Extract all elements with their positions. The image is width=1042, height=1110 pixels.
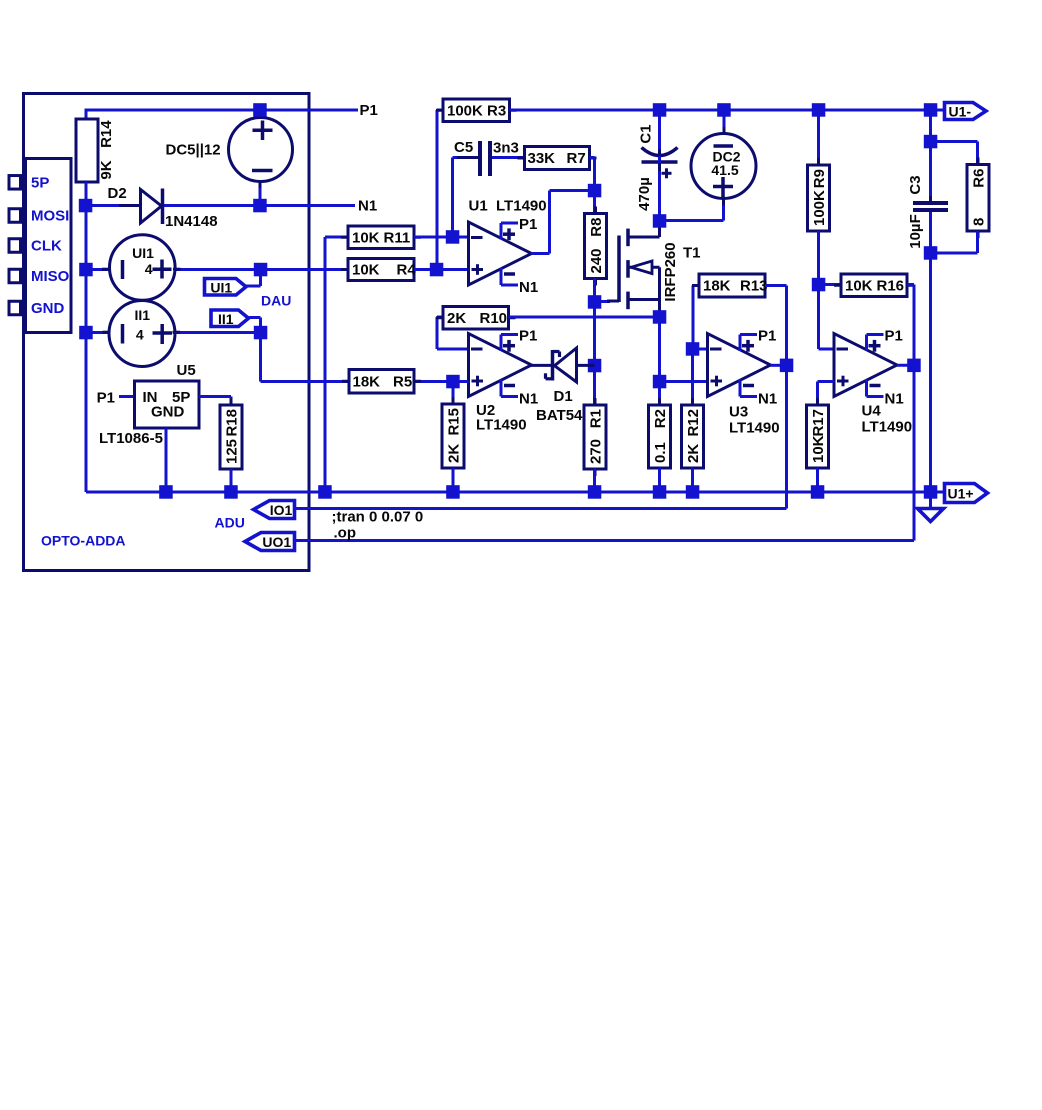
wire R3 right / top rail — [510, 109, 931, 112]
svg-text:2K: 2K — [447, 310, 466, 327]
svg-text:100K: 100K — [811, 190, 828, 226]
diode D2 — [141, 190, 162, 224]
connector box — [26, 159, 72, 333]
svg-text:R17: R17 — [810, 409, 827, 437]
resistor R16 — [834, 284, 841, 287]
svg-text:OPTO-ADDA: OPTO-ADDA — [41, 533, 126, 549]
diode D1 BAT54 — [555, 348, 577, 382]
resistor R14 — [76, 119, 98, 182]
wire R12 top — [691, 349, 694, 405]
wire P1 to U5 — [119, 395, 135, 398]
regulator U5 box — [135, 381, 200, 428]
svg-text:10K: 10K — [845, 277, 873, 294]
svg-text:R16: R16 — [877, 277, 905, 294]
wire T1 source down — [658, 317, 661, 382]
svg-text:ADU: ADU — [215, 515, 245, 531]
svg-text:R8: R8 — [588, 218, 605, 237]
DC5 minus mark — [252, 169, 273, 173]
svg-text:41.5: 41.5 — [711, 162, 738, 178]
wire R6 top — [931, 140, 978, 143]
junction R9 top rail — [812, 103, 826, 117]
op-amp U3 — [708, 334, 771, 397]
svg-text:5P: 5P — [31, 174, 49, 191]
svg-text:DAU: DAU — [261, 292, 291, 308]
UI1 plus mark — [153, 267, 172, 271]
resistor R5 — [342, 380, 349, 383]
wire U5 5P out — [199, 395, 231, 398]
svg-text:BAT54: BAT54 — [536, 407, 583, 424]
junction DC5 top — [253, 103, 267, 117]
wire DC5 bottom stub — [259, 181, 262, 206]
svg-text:LT1490: LT1490 — [476, 417, 527, 434]
junction U1+ rail — [924, 485, 938, 499]
connector pin square CLK — [9, 239, 21, 253]
wire R1 bottom — [593, 469, 596, 492]
svg-text:N1: N1 — [519, 279, 538, 296]
wire D2 anode — [86, 204, 137, 207]
wire C5 right — [492, 156, 525, 159]
wire U3- input — [693, 348, 708, 351]
svg-text:2K: 2K — [446, 444, 463, 463]
op-amp U4 — [834, 334, 897, 397]
svg-text:270: 270 — [588, 439, 605, 464]
wire U4- input — [817, 285, 820, 350]
capacitor C5 — [457, 156, 478, 159]
junction R15 top — [446, 375, 460, 389]
wire UI1 right — [174, 268, 349, 271]
wire U4 out down to UO1 — [913, 365, 916, 540]
svg-text:R9: R9 — [811, 169, 828, 188]
wire R17 bottom — [816, 468, 819, 492]
wire C3 upper — [929, 142, 932, 202]
source II1 circle — [109, 301, 175, 367]
wire R7 right — [590, 156, 595, 159]
svg-text:125: 125 — [224, 439, 241, 464]
wire R3 left — [437, 109, 443, 112]
junction U3- / R13 / R12 — [686, 342, 700, 356]
flag IO1 — [254, 501, 295, 519]
wire R11 to U1- — [414, 236, 469, 239]
wire DC5 top stub — [259, 110, 262, 118]
svg-text:P1: P1 — [360, 102, 378, 119]
junction U3 out — [780, 359, 794, 373]
svg-text:II1: II1 — [218, 311, 234, 327]
junction T1 source / R10 — [653, 310, 667, 324]
resistor R3 — [436, 109, 443, 112]
wire U4 output — [897, 364, 914, 367]
wire gate — [595, 300, 611, 303]
svg-text:240: 240 — [588, 248, 605, 273]
junction R2 top — [653, 375, 667, 389]
junction R2 bottom — [653, 485, 667, 499]
svg-text:MISO: MISO — [31, 268, 70, 285]
transistor T1 IRFP260 — [617, 236, 621, 303]
svg-text:T1: T1 — [683, 245, 701, 262]
junction C1 top rail — [653, 103, 667, 117]
junction R8 top — [588, 184, 602, 198]
wire DC2 top stub — [723, 110, 726, 134]
wire II1 right — [173, 331, 261, 334]
wire R2 bottom — [658, 468, 661, 492]
resistor R7 — [518, 157, 525, 160]
II1 plus mark — [153, 331, 173, 335]
wire DC2 bottom — [722, 199, 725, 221]
junction U1- top rail — [924, 103, 938, 117]
wire R10 left — [437, 316, 444, 319]
wire II1 net down — [259, 333, 262, 382]
capacitor C1 470u — [642, 148, 678, 156]
junction R15 bottom — [446, 485, 460, 499]
svg-text:P1: P1 — [97, 390, 115, 407]
wire R10 right — [509, 316, 660, 319]
svg-text:DC5||12: DC5||12 — [166, 142, 221, 159]
svg-text:R12: R12 — [685, 409, 702, 437]
wire C1 bottom — [658, 156, 661, 221]
junction II1 left — [79, 326, 93, 340]
svg-text:GND: GND — [31, 300, 65, 317]
svg-text:P1: P1 — [758, 328, 776, 345]
wire R4 to U1+ — [414, 268, 469, 271]
svg-text:9K R14: 9K R14 — [98, 120, 115, 180]
wire U1+ flag stub — [931, 491, 945, 494]
wire C3 top — [929, 110, 932, 142]
wire II1 flag — [249, 316, 261, 319]
op-amp U1 — [469, 222, 532, 285]
junction R8 bottom / gate — [588, 295, 602, 309]
wire R9 top — [817, 110, 820, 165]
voltage source DC2 circle — [691, 134, 756, 199]
wire bottom rail — [86, 491, 931, 494]
svg-text:33K: 33K — [528, 150, 556, 167]
wire U1- flag stub — [931, 109, 945, 112]
svg-text:N1: N1 — [758, 391, 777, 408]
wire R2 top stub — [658, 382, 661, 406]
svg-text:GND: GND — [151, 404, 185, 421]
voltage source DC5||12 circle — [229, 118, 293, 182]
subcircuit box OPTO-ADDA — [24, 94, 310, 571]
svg-text:MOSI: MOSI — [31, 208, 69, 225]
wire D2 cathode to N1 — [164, 204, 355, 207]
DC2 minus mark — [714, 144, 734, 148]
resistor R8 — [594, 207, 597, 214]
wire R8 top stub — [593, 191, 596, 215]
svg-text:C5: C5 — [454, 139, 473, 156]
wire R15 bottom stub — [452, 468, 455, 492]
junction R12 bottom — [686, 485, 700, 499]
svg-text:LT1086-5: LT1086-5 — [99, 430, 163, 447]
wire U4+ input — [818, 380, 835, 383]
junction DC2 top rail — [717, 103, 731, 117]
svg-text:LT1490: LT1490 — [729, 420, 780, 437]
junction U5 gnd — [159, 485, 173, 499]
svg-text:D1: D1 — [554, 388, 573, 405]
svg-text:P1: P1 — [885, 328, 903, 345]
svg-text:1N4148: 1N4148 — [165, 213, 218, 230]
svg-text:UI1: UI1 — [210, 279, 232, 295]
resistor R6 — [977, 158, 980, 165]
junction U4 out — [907, 359, 921, 373]
svg-text:18K: 18K — [703, 278, 731, 295]
svg-text:C3: C3 — [907, 175, 924, 194]
svg-text:10K: 10K — [352, 229, 380, 246]
capacitor C3 10uF — [929, 196, 932, 202]
wire U3 out down to IO1 — [785, 365, 788, 508]
svg-text:R4: R4 — [397, 262, 417, 279]
flag U1+ — [945, 484, 988, 503]
resistor R13 — [692, 284, 699, 287]
wire D1 right — [577, 364, 595, 367]
svg-text:10K: 10K — [810, 435, 827, 463]
junction UI1 left — [79, 263, 93, 277]
svg-text:R10: R10 — [480, 310, 508, 327]
svg-text:10K: 10K — [352, 262, 380, 279]
flag UO1 — [245, 533, 295, 551]
junction DC5 bottom / N1 — [253, 199, 267, 213]
wire R18 bottom — [230, 469, 233, 492]
svg-text:UI1: UI1 — [132, 245, 154, 261]
svg-text:100K: 100K — [447, 102, 483, 119]
junction R9/R16/U4- — [812, 278, 826, 292]
svg-text:10µF: 10µF — [907, 214, 924, 249]
svg-text:.op: .op — [334, 524, 357, 541]
junction R3/U1+ — [430, 263, 444, 277]
svg-text:R15: R15 — [446, 408, 463, 436]
flag U1- — [945, 103, 987, 120]
wire R15 top stub — [452, 382, 455, 406]
svg-text:R13: R13 — [740, 278, 768, 295]
wire R9 bottom — [817, 231, 820, 285]
svg-text:P1: P1 — [519, 328, 537, 345]
resistor R4 — [341, 268, 348, 271]
wire R13 left — [693, 284, 699, 287]
wire UO1 — [295, 539, 915, 542]
wire to U3+ — [660, 380, 708, 383]
svg-text:8: 8 — [971, 218, 988, 226]
junction D2/R14 — [79, 199, 93, 213]
svg-text:0.1: 0.1 — [652, 442, 669, 463]
wire R12 bottom — [691, 468, 694, 492]
svg-text:D2: D2 — [108, 185, 127, 202]
junction R17 bottom — [811, 485, 825, 499]
wire C5 left — [451, 158, 454, 238]
svg-text:LT1490: LT1490 — [862, 419, 913, 436]
junction x325 rail — [318, 485, 332, 499]
svg-text:3n3: 3n3 — [493, 140, 519, 157]
junction R18 bottom — [224, 485, 238, 499]
wire R8-R1 vertical — [593, 302, 596, 405]
junction D1 cathode net — [588, 359, 602, 373]
svg-text:2K: 2K — [685, 444, 702, 463]
wire II1 left — [86, 331, 110, 334]
resistor R17 — [816, 398, 819, 405]
svg-text:UO1: UO1 — [262, 534, 291, 550]
wire C3 down to rail — [929, 253, 932, 492]
wire R5 to U2+ — [414, 380, 469, 383]
svg-text:18K: 18K — [353, 373, 381, 390]
svg-text:U1 LT1490: U1 LT1490 — [469, 198, 547, 215]
svg-text:U4: U4 — [862, 403, 882, 420]
wire R16 left — [819, 283, 842, 286]
svg-text:C1: C1 — [638, 124, 655, 143]
wire IO1 — [295, 507, 787, 510]
junction C5/U1- — [446, 230, 460, 244]
wire left vertical x86 — [85, 182, 88, 492]
resistor R2 — [658, 398, 661, 405]
svg-text:U3: U3 — [729, 404, 748, 421]
flag UI1 — [205, 279, 247, 296]
wire R6 bottom — [931, 252, 978, 255]
wire R13 right — [765, 284, 787, 287]
junction C3/R6 top — [924, 135, 938, 149]
svg-text:R18: R18 — [224, 409, 241, 437]
wire R14 top stub — [85, 110, 88, 120]
resistor R11 — [341, 236, 348, 239]
wire U2 out — [531, 364, 554, 367]
wire UI1 flag — [246, 285, 261, 288]
connector pin square GND — [9, 301, 21, 315]
wire x325 vertical — [324, 237, 327, 492]
svg-text:R2: R2 — [652, 409, 669, 428]
svg-text:P1: P1 — [519, 216, 537, 233]
connector pin square MISO — [9, 269, 21, 283]
wire U1 output — [531, 252, 550, 255]
DC5 plus mark — [253, 129, 273, 133]
connector pin square 5P — [9, 176, 21, 190]
junction C1 bottom / drain — [653, 214, 667, 228]
svg-text:N1: N1 — [519, 391, 538, 408]
svg-text:4: 4 — [136, 327, 144, 343]
wire R8 bottom stub — [593, 279, 596, 303]
svg-text:R11: R11 — [384, 229, 411, 246]
resistor R15 — [452, 397, 455, 404]
svg-text:N1: N1 — [885, 391, 904, 408]
resistor R1 — [594, 398, 597, 405]
ground flag — [929, 492, 932, 508]
junction II1 flag — [254, 326, 267, 340]
svg-text:IO1: IO1 — [270, 502, 293, 518]
resistor R12 — [691, 398, 694, 405]
resistor R9 — [817, 158, 820, 165]
wire top rail P1 net — [85, 109, 359, 112]
op-amp U2 — [469, 334, 532, 397]
UI1 minus bar — [121, 260, 125, 279]
junction R1 bottom — [588, 485, 602, 499]
wire U3 output — [771, 364, 787, 367]
II1 minus bar — [121, 324, 125, 344]
svg-text:470µ: 470µ — [636, 177, 653, 211]
wire C1 top stub — [658, 110, 661, 149]
svg-text:R1: R1 — [588, 409, 605, 428]
wire R16 right — [907, 283, 914, 286]
svg-text:II1: II1 — [135, 307, 151, 323]
svg-text:R6: R6 — [971, 169, 988, 188]
svg-text:IRFP260: IRFP260 — [662, 242, 679, 301]
D2 leads — [119, 204, 140, 207]
svg-text:CLK: CLK — [31, 238, 62, 255]
junction UI1/R4 — [254, 263, 267, 277]
svg-text:U1+: U1+ — [947, 486, 973, 502]
svg-text:R5: R5 — [393, 373, 412, 390]
svg-text:;tran 0 0.07 0: ;tran 0 0.07 0 — [332, 509, 424, 526]
svg-text:4: 4 — [145, 261, 153, 277]
connector pin square MOSI — [9, 209, 21, 223]
junction C3/R6 bottom — [924, 246, 938, 260]
svg-text:R7: R7 — [567, 150, 586, 167]
svg-text:R3: R3 — [487, 102, 506, 119]
svg-text:U1-: U1- — [948, 104, 971, 120]
wire UI1 left — [86, 268, 110, 271]
DC2 plus mark — [713, 185, 733, 189]
wire U5 GND down — [165, 428, 168, 492]
resistor R10 — [436, 316, 443, 319]
resistor R18 — [230, 398, 233, 405]
svg-text:N1: N1 — [358, 198, 377, 215]
wire C3 lower — [929, 212, 932, 253]
svg-text:U5: U5 — [177, 362, 196, 379]
flag II1 — [211, 310, 249, 327]
source UI1 circle — [110, 235, 176, 301]
